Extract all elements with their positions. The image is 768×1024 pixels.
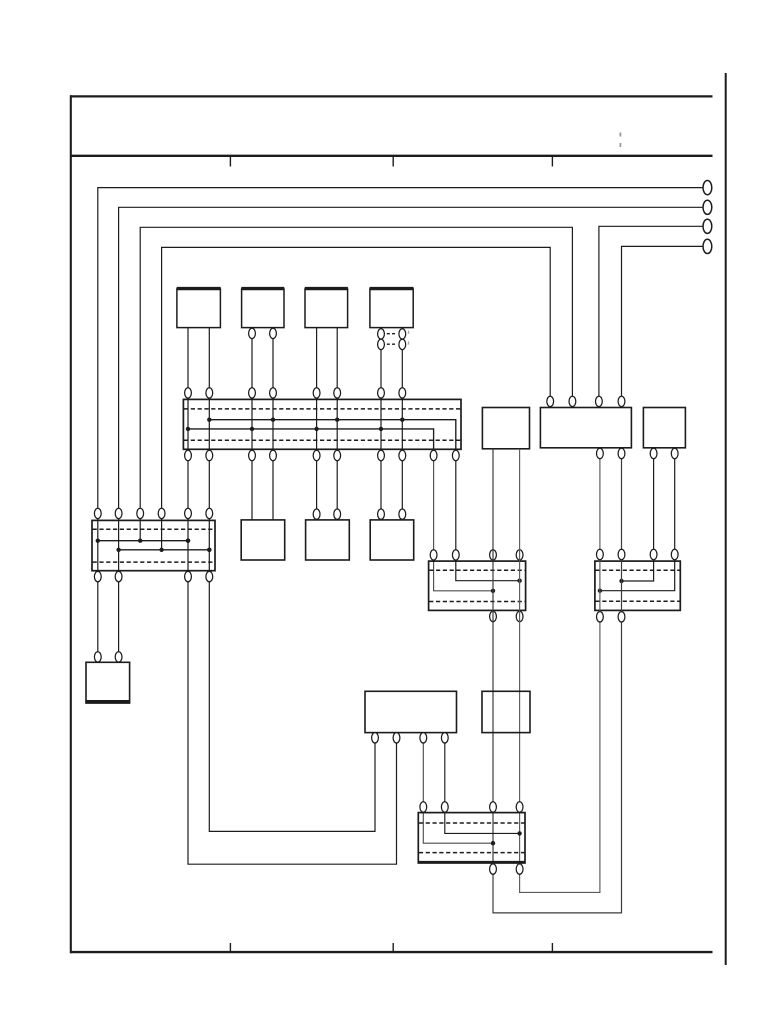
junction block J3 lower dashed bus bbox=[429, 601, 525, 603]
tick mark below header at x=552 bbox=[551, 157, 553, 167]
connector ovals below J3 bbox=[490, 611, 523, 621]
inline connector ovals below box B4 bbox=[378, 329, 410, 350]
wire J1 stub2 down into junction J3 bus1 bbox=[456, 449, 522, 583]
component box F bbox=[482, 691, 530, 732]
wire B4 pin2 to box M3 (through J1) bbox=[401, 328, 403, 520]
connector ovals above J1 bbox=[185, 388, 406, 398]
component box M1 bbox=[241, 520, 285, 560]
connector ovals below box E bbox=[372, 733, 449, 743]
junction block J5 outline bbox=[418, 813, 525, 863]
component box E bbox=[365, 691, 457, 732]
wire B4 pin1 to box M3 (through J1) bbox=[380, 328, 382, 520]
component box D bbox=[540, 408, 631, 448]
tick mark below header at x=230 bbox=[229, 157, 231, 167]
wire box H pin1 into J4 bus1 bbox=[619, 448, 653, 583]
terminal ring T1 bbox=[703, 181, 712, 195]
J2 bus line 2 with junction dots bbox=[116, 548, 211, 552]
wire net P1: box D pin4 through J4 down around to J5/J3 up to box G pin2 bbox=[493, 448, 622, 913]
wire B2 pin1 to box M1 (through J1) bbox=[251, 328, 253, 520]
component box B1 bbox=[177, 289, 221, 328]
junction block J4 lower dashed bus bbox=[596, 600, 680, 602]
wire B3 pin2 to box M2 (through J1) bbox=[336, 328, 338, 520]
component box M3 bbox=[370, 520, 414, 560]
connector ovals below box B2 bbox=[249, 328, 277, 338]
connector ovals below J1 bbox=[185, 450, 460, 460]
tick mark above bottom border at x=552 bbox=[551, 943, 553, 952]
wire net P2: box D pin3 through J4 down around to J5/J3 up to box G pin1 bbox=[520, 448, 600, 893]
component box B3 bbox=[305, 289, 348, 328]
terminal ring T4 bbox=[703, 239, 712, 253]
J1 bus line 2 with junction dots bbox=[186, 427, 434, 450]
wire J1 stub1 down into junction J3 bus2 bbox=[434, 449, 496, 593]
junction block J1 outline bbox=[183, 399, 461, 449]
wire B1 pin2 through J1/J2 down and over to box E pin1 bbox=[207, 328, 375, 832]
junction block J3 outline bbox=[429, 561, 526, 610]
junction block J2 lower dashed bus bbox=[93, 561, 215, 563]
frame left border line bbox=[70, 95, 72, 953]
connector ovals above box M3 bbox=[378, 509, 406, 519]
J1 bus line 1 with junction dots bbox=[207, 418, 456, 450]
wire net N5: terminal T3 to box D pin3 bbox=[599, 226, 703, 396]
wire box H pin2 into J4 bus2 bbox=[598, 448, 675, 593]
wire B2 pin2 to box M1 (through J1) bbox=[272, 328, 274, 520]
junction block J2 upper dashed bus bbox=[93, 528, 215, 530]
battery box with thick base bbox=[85, 662, 130, 702]
junction block J5 upper dashed bus bbox=[419, 822, 525, 824]
connector ovals above J3 bbox=[430, 550, 523, 560]
tick mark below header at x=393 bbox=[392, 157, 394, 167]
page right edge line bbox=[725, 73, 727, 965]
terminal ring T2 bbox=[703, 200, 712, 214]
junction block J1 upper dashed bus bbox=[184, 408, 460, 410]
component box B2 bbox=[241, 289, 284, 328]
frame header separator line bbox=[70, 155, 713, 157]
tick mark above bottom border at x=393 bbox=[392, 943, 394, 952]
wire box E pin4 into J5 bus1 bbox=[445, 733, 522, 836]
connector ovals on net P1/P2 below J4 bbox=[597, 612, 625, 622]
connector ovals below box H bbox=[650, 448, 678, 458]
component box H bbox=[643, 408, 685, 448]
frame bottom border line bbox=[70, 951, 713, 953]
junction block J4 outline bbox=[595, 561, 680, 610]
connector ovals above battery box bbox=[94, 652, 122, 662]
connector ovals above box M2 bbox=[313, 509, 340, 519]
wire B3 pin1 to box M2 (through J1) bbox=[316, 328, 318, 520]
wire net N3: box D pin2 up across to junction J2 pin3 (ends on J2 bus1) bbox=[140, 227, 572, 540]
wire box E pin3 into J5 bus2 bbox=[423, 733, 495, 846]
connector ovals below J2 bbox=[94, 571, 212, 581]
tick mark above bottom border at x=230 bbox=[229, 943, 231, 952]
component box G bbox=[482, 408, 529, 449]
connector ovals below J5 bbox=[490, 864, 523, 874]
component box M2 bbox=[306, 520, 350, 560]
connector ovals above J2 bbox=[94, 508, 212, 518]
wire net N4: box D pin1 up across to junction J2 pin4 (ends on J2 bus2) bbox=[162, 247, 551, 549]
faint header mark bbox=[620, 133, 622, 148]
junction block J4 upper dashed bus bbox=[596, 569, 680, 571]
connector ovals above J5 bbox=[420, 802, 523, 812]
connector ovals above box D bbox=[547, 396, 625, 406]
wire net N1: terminal T1 to junction J2 pin1 then battery box (through J2) bbox=[98, 188, 703, 663]
connector ovals above J4 bbox=[650, 549, 678, 559]
frame top border line bbox=[70, 95, 713, 97]
junction block J5 lower dashed bus bbox=[419, 852, 525, 854]
component box B4 bbox=[370, 289, 414, 328]
connector ovals on net P1/P2 below box D bbox=[597, 448, 625, 458]
wire B1 pin1 through J1/J2 down and over to box E pin2 bbox=[186, 328, 397, 865]
wire net N2: terminal T2 to junction J2 pin2 then battery box (through J2) bbox=[119, 207, 703, 662]
junction block J3 upper dashed bus bbox=[429, 569, 525, 571]
junction block J1 lower dashed bus bbox=[184, 439, 460, 441]
junction block J2 outline bbox=[92, 520, 215, 570]
wire net N6: terminal T4 to box D pin4 bbox=[622, 246, 703, 396]
J2 bus line 1 with junction dots bbox=[96, 539, 191, 543]
connector ovals on net P1/P2 above J4 bbox=[597, 549, 625, 559]
terminal ring T3 bbox=[703, 219, 712, 233]
